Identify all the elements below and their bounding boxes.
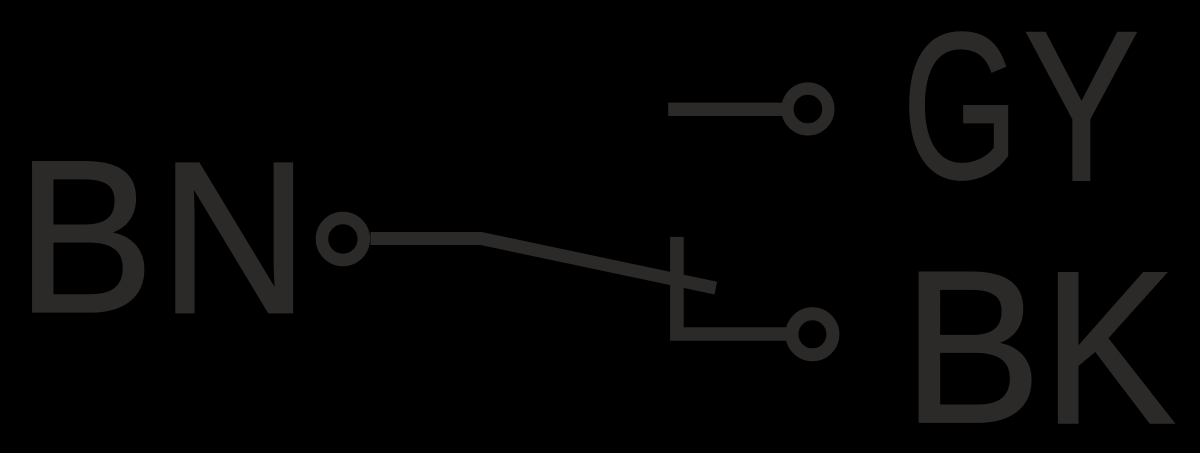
wire: BK contact bar and branch (vertical bar, corner junction, horizontal run to BK terminal): [677, 237, 789, 334]
svg-text:K: K: [1043, 227, 1176, 453]
svg-text:N: N: [159, 116, 309, 358]
terminal BN (common contact circle): [322, 218, 364, 260]
wire: switch lever from BN common terminal (horizontal segment then slanted lever): [371, 239, 716, 289]
svg-text:B: B: [16, 115, 154, 358]
svg-text:B: B: [903, 227, 1042, 453]
terminal BK (contact circle): [792, 314, 833, 355]
wire: GY branch (open contact): [668, 103, 786, 116]
svg-text:G: G: [902, 0, 1018, 223]
svg-text:Y: Y: [1023, 0, 1139, 226]
terminal GY (contact circle): [787, 89, 828, 130]
